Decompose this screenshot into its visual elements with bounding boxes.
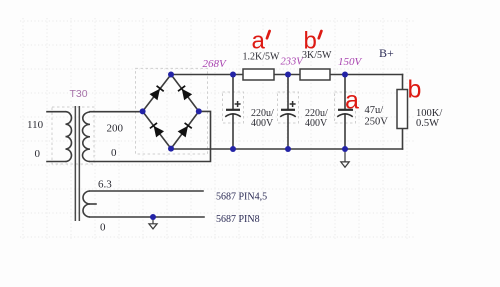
wire right vertical B+ drop to resistor b top (402, 75, 404, 90)
wire heater bottom lead 0 (90, 216, 204, 218)
node 150V (342, 72, 348, 78)
wire cap C1 branch lower (232, 114, 234, 149)
svg-text:150V: 150V (338, 56, 363, 68)
diode D4 lower-right (178, 123, 193, 138)
wire cap C3 branch lower (344, 114, 346, 149)
transformer T30 secondary winding 200V (82, 112, 90, 162)
ground symbol main filter (341, 149, 349, 167)
svg-text:a: a (252, 28, 266, 55)
svg-text:47u/: 47u/ (365, 105, 384, 116)
svg-text:200: 200 (107, 123, 124, 135)
wire bottom rail (ground return) (171, 148, 403, 150)
resistor R1 1.2K/5W (243, 69, 274, 80)
svg-text:6.3: 6.3 (98, 179, 112, 191)
svg-text:5687 PIN8: 5687 PIN8 (216, 214, 260, 225)
svg-text:B+: B+ (379, 46, 394, 60)
diode D3 lower-left (149, 123, 164, 138)
svg-text:233V: 233V (281, 57, 305, 68)
svg-text:b: b (408, 76, 422, 104)
wire resistor b bottom to bottom rail (402, 129, 404, 150)
capacitor C1 220u/400V (225, 101, 241, 117)
svg-text:a: a (345, 87, 359, 115)
transformer T30 heater winding 6.3V (83, 191, 90, 217)
wire heater center tap stub (90, 203, 96, 205)
svg-text:0: 0 (111, 147, 117, 159)
svg-text:250V: 250V (365, 117, 389, 128)
node heater ground (150, 214, 156, 220)
node bridge right AC (196, 108, 202, 114)
svg-text:T30: T30 (70, 88, 88, 100)
node C2 bottom (285, 146, 291, 152)
svg-text:268V: 268V (203, 58, 228, 70)
diode D2 upper-right (178, 85, 193, 100)
svg-text:0.5W: 0.5W (416, 118, 439, 129)
capacitor C3 47u/250V (337, 110, 353, 117)
wire bridge edge lower-left (143, 111, 171, 148)
wire secondary top lead to bridge left node (90, 111, 143, 113)
wire bridge right node to secondary bottom lead (90, 111, 211, 161)
node bridge bottom (168, 146, 174, 152)
node C1 top (230, 72, 236, 78)
svg-text:400V: 400V (305, 118, 328, 129)
wire cap C3 branch upper (344, 75, 346, 110)
transformer T30 core (75, 106, 77, 221)
wire bridge edge upper-right (171, 75, 199, 112)
wire primary top lead 110 (47, 111, 66, 113)
wire heater top lead 6.3 (90, 190, 203, 192)
resistor R3 100K/0.5W bleeder (397, 90, 408, 129)
svg-text:400V: 400V (251, 118, 274, 129)
diode D1 upper-left (150, 85, 165, 100)
ground symbol heater (149, 217, 157, 229)
node 233V (285, 72, 291, 78)
transformer T30 primary winding (66, 112, 72, 162)
node bridge left AC (140, 108, 146, 114)
wire bridge edge lower-right (171, 111, 199, 148)
node C3 bottom ground (342, 146, 348, 152)
wire bridge edge upper-left (143, 75, 171, 112)
wire cap C1 branch upper (232, 75, 234, 110)
wire cap C2 branch upper (287, 75, 289, 110)
svg-text:0: 0 (35, 148, 41, 160)
svg-text:5687 PIN4,5: 5687 PIN4,5 (216, 192, 267, 203)
svg-text:0: 0 (100, 222, 106, 234)
resistor R2 3K/5W (300, 69, 330, 80)
capacitor C2 220u/400V (280, 101, 296, 117)
wire cap C2 branch lower (287, 114, 289, 149)
node bridge top 268V (168, 72, 174, 78)
node C1 bottom (230, 146, 236, 152)
svg-text:b: b (304, 28, 317, 55)
wire top rail 268V to B+ corner (171, 74, 403, 76)
wire primary bottom lead 0 (47, 161, 66, 163)
svg-text:110: 110 (27, 119, 44, 131)
